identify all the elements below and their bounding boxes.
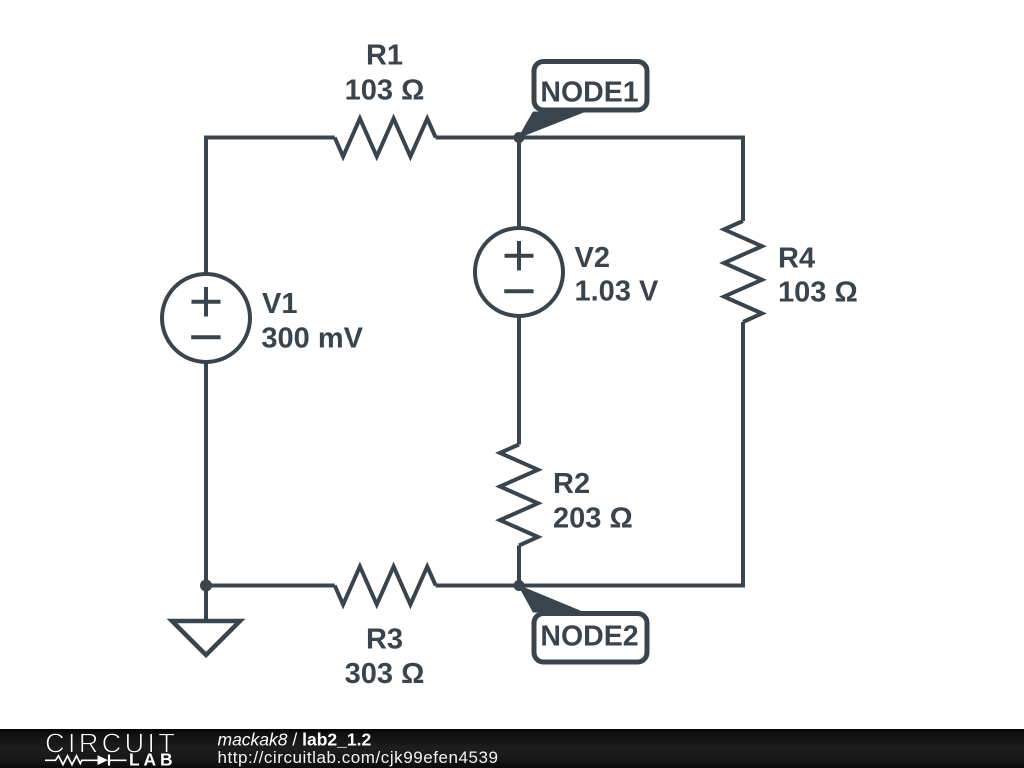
svg-text:NODE1: NODE1 bbox=[540, 77, 638, 109]
logo mini diode bbox=[98, 755, 109, 765]
svg-text:V2: V2 bbox=[575, 242, 610, 274]
footer bar bbox=[0, 729, 1024, 768]
logo mini resistor bbox=[45, 756, 98, 765]
svg-text:mackak8 / lab2_1.2: mackak8 / lab2_1.2 bbox=[218, 730, 372, 750]
wire V2 to R2 bbox=[517, 316, 521, 445]
svg-text:V1: V1 bbox=[262, 288, 297, 320]
ground junction dot bbox=[200, 580, 212, 592]
NODE1 flag box bbox=[534, 62, 647, 111]
svg-text:R3: R3 bbox=[366, 624, 403, 656]
wire bottom horizontal right segment bbox=[436, 584, 743, 588]
V1 plus sign bbox=[192, 300, 221, 304]
wire right vertical lower bbox=[741, 322, 745, 588]
svg-text:R4: R4 bbox=[778, 243, 815, 275]
svg-text:303 Ω: 303 Ω bbox=[345, 658, 425, 690]
wire top horizontal right segment bbox=[436, 136, 743, 140]
node B junction dot (node2) bbox=[514, 580, 525, 591]
NODE2 flag box bbox=[534, 614, 647, 663]
NODE1 flag pointer bbox=[518, 112, 586, 139]
voltage source V1 bbox=[162, 274, 250, 362]
svg-text:103 Ω: 103 Ω bbox=[778, 277, 858, 309]
resistor R4 bbox=[724, 221, 762, 322]
resistor R1 bbox=[335, 119, 436, 157]
svg-text:R1: R1 bbox=[366, 40, 403, 72]
V1 minus sign bbox=[191, 335, 220, 339]
svg-text:203 Ω: 203 Ω bbox=[553, 503, 633, 535]
V2 minus sign bbox=[504, 289, 533, 293]
resistor R2 bbox=[500, 445, 538, 546]
wire top horizontal left segment bbox=[204, 136, 335, 140]
svg-text:300 mV: 300 mV bbox=[261, 323, 363, 355]
wire left vertical bottom (V1 to ground node) bbox=[204, 362, 208, 586]
wire middle vertical node1 to V2 bbox=[517, 138, 521, 229]
voltage source V2 bbox=[475, 228, 563, 316]
svg-text:1.03 V: 1.03 V bbox=[575, 276, 659, 308]
wire left vertical top (node1 top wire to V1) bbox=[204, 138, 208, 275]
NODE2 flag pointer bbox=[518, 585, 586, 613]
svg-text:NODE2: NODE2 bbox=[540, 621, 638, 653]
wire bottom horizontal left segment bbox=[206, 584, 335, 588]
svg-text:R2: R2 bbox=[553, 468, 590, 500]
wire right vertical upper bbox=[741, 136, 745, 222]
ground triangle bbox=[172, 621, 240, 655]
V2 plus sign bbox=[505, 254, 534, 258]
wire R2 to node2 bbox=[517, 546, 521, 586]
resistor R3 bbox=[335, 567, 436, 605]
ground stub bbox=[204, 586, 208, 622]
node A junction dot (node1) bbox=[514, 132, 525, 143]
svg-text:LAB: LAB bbox=[129, 750, 176, 768]
svg-text:http://circuitlab.com/cjk99efe: http://circuitlab.com/cjk99efen4539 bbox=[218, 748, 499, 767]
svg-text:103 Ω: 103 Ω bbox=[345, 75, 425, 107]
